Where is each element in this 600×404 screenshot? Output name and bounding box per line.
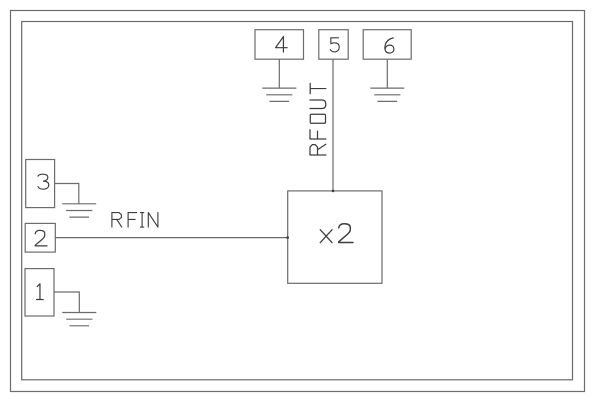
wire pin 6 to ground bbox=[386, 59, 388, 88]
pin 1 label bbox=[36, 284, 43, 300]
wire pin 3 to ground bbox=[55, 184, 79, 204]
wire pin 2 to doubler block (RFIN net) bbox=[55, 237, 287, 239]
frequency doubler block U1 bbox=[288, 191, 382, 283]
ground under pin 6 bbox=[370, 88, 404, 101]
wire pin 1 to ground bbox=[54, 292, 79, 313]
pin 6 label bbox=[385, 38, 394, 53]
ground under pin 4 bbox=[262, 88, 296, 101]
digit 2 of x2 label bbox=[339, 224, 353, 243]
pin 5 box bbox=[319, 30, 348, 60]
ground at pin 1 bbox=[62, 313, 96, 326]
RFOUT net label bbox=[310, 144, 326, 155]
pin 3 box bbox=[26, 160, 55, 208]
wire pin 4 to ground bbox=[278, 59, 280, 88]
RFIN net label bbox=[112, 213, 122, 227]
pin 6 box bbox=[363, 30, 411, 60]
ground at pin 3 bbox=[62, 204, 96, 217]
wire pin 5 to doubler block (RFOUT net) bbox=[332, 59, 334, 191]
pin 1 box bbox=[25, 269, 54, 316]
pin 4 label bbox=[275, 36, 287, 52]
junction at RFIN input of doubler bbox=[286, 236, 289, 239]
pin 2 label bbox=[35, 230, 47, 246]
pin 3 label bbox=[38, 174, 49, 189]
junction at RFOUT output of doubler bbox=[332, 190, 335, 193]
pin 2 box bbox=[25, 223, 55, 252]
times sign of x2 label bbox=[320, 230, 332, 243]
pin 4 box bbox=[255, 30, 304, 60]
pin 5 label bbox=[330, 38, 339, 52]
